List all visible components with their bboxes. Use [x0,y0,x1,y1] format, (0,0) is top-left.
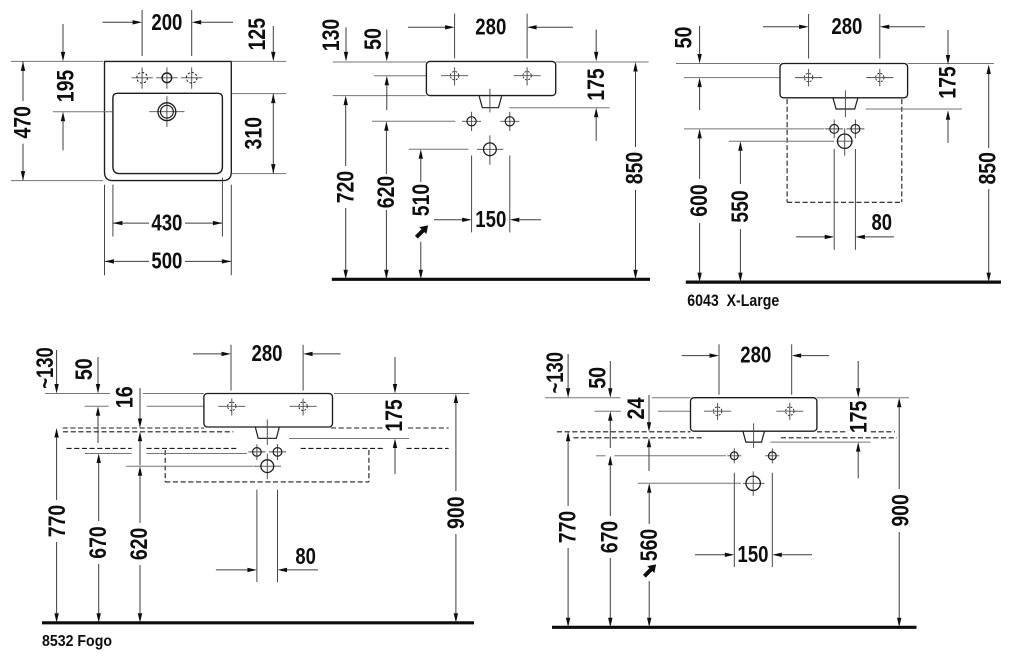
view 1 centre tap hole [156,67,178,88]
view 5 drain leader [638,482,741,484]
svg-text:175: 175 [845,401,872,434]
view 1 inner basin [113,93,222,173]
view 2 overflow outlet spout [479,96,501,107]
view 2 mounting holes leader [372,120,455,122]
view 5 console bottom dashed line [573,437,703,439]
svg-text:280: 280 [475,13,506,39]
svg-text:195: 195 [53,70,80,103]
svg-text:670: 670 [85,526,112,559]
view 3: rim leaders [676,63,780,65]
svg-text:150: 150 [738,541,769,567]
view 3 right mounting hole [847,120,865,139]
height adjust arrow view 5 [641,561,660,580]
view 5 right tap cross [776,403,803,420]
top rim leader lines [11,60,103,62]
svg-text:175: 175 [381,399,408,432]
view 3 right tap cross [866,69,893,87]
view 3 drain leader [729,140,834,142]
svg-text:670: 670 [597,521,624,554]
dimension 200 tap hole spacing [141,10,143,56]
view 5 left tap cross [704,403,731,420]
view 4 bracket dashed line [67,447,132,449]
svg-text:600: 600 [686,184,713,217]
view 5 overflow spout [743,431,765,442]
view 4 bracket frame dashed rect [164,450,166,482]
dimension 80 hole spacing view 4 [256,490,258,582]
view 1 left tap hole [132,67,153,88]
svg-text:~130: ~130 [542,352,569,394]
svg-text:280: 280 [252,340,283,366]
svg-text:50: 50 [585,367,612,389]
view 3 left mounting hole [825,120,843,139]
view 3 furniture outline dashed [786,99,788,202]
view 2 drain leader [409,148,469,150]
svg-text:150: 150 [475,206,506,232]
view 3 mounting holes leader [684,128,825,130]
svg-text:850: 850 [622,152,649,185]
view 4 overflow bottom leader [289,438,409,440]
svg-text:6043 X-Large: 6043 X-Large [687,291,779,310]
view 2 tap centreline leader [374,75,426,77]
height adjust arrow view 2 [413,222,432,241]
dimension 500 overall width [104,185,106,276]
svg-text:280: 280 [740,342,771,368]
svg-text:900: 900 [443,496,470,529]
view 5 overflow bottom leader [770,441,870,443]
svg-text:620: 620 [126,528,153,561]
svg-text:470: 470 [10,106,37,139]
dimension 280 view 5 [718,344,720,394]
svg-text:620: 620 [373,176,400,209]
view 4: rim leaders [45,393,110,395]
view 4 drain leader [126,465,253,467]
svg-text:310: 310 [240,117,267,150]
view 2 basin bottom leader [333,95,427,97]
view 3 washbasin body [780,64,908,98]
dimension 280 view 4 [230,345,232,391]
view 3 overflow spout [833,98,858,109]
view 3 floor line [686,281,1001,284]
svg-text:50: 50 [360,28,387,50]
view 5 tap line leader [595,410,621,412]
view 5 left mounting hole [727,448,741,463]
dimension 175 view 4 [384,397,406,434]
view 2 left tap cross [441,67,468,85]
svg-text:125: 125 [244,18,271,51]
view 4 washbasin body [204,394,333,428]
view 1 right tap hole [181,67,202,88]
view 2 left mounting hole [462,112,481,131]
view 3 drain outlet [836,128,853,156]
view 2 drain outlet [477,135,503,164]
svg-text:50: 50 [71,358,98,380]
view 5 washbasin body [691,398,817,432]
view 4 console top dashed line [63,427,204,429]
svg-text:510: 510 [408,184,435,217]
svg-text:16: 16 [112,386,139,408]
view 2 right tap cross [514,67,541,85]
view 3 overflow bottom leader [866,108,962,110]
dimension 280 tap spacing view 2 [454,14,456,59]
dimension 150 hole spacing view 2 [471,156,473,233]
svg-text:80: 80 [295,543,316,569]
view 2 washbasin body [426,61,555,95]
view 1 drain hole [149,96,184,127]
view 2 floor line [332,278,650,281]
view 5 console top dashed line [557,431,691,433]
svg-text:500: 500 [151,248,182,274]
svg-text:770: 770 [555,511,582,544]
view 4 floor line [42,621,474,624]
dimension 430 basin width [112,185,114,237]
view 2 right mounting hole [500,112,519,131]
svg-text:560: 560 [636,529,663,562]
view 5 right mounting hole [765,448,779,463]
dimension 80 hole spacing view 3 [833,149,835,250]
view 4 overflow spout [255,427,279,438]
bottom rim leader left [11,180,103,182]
svg-text:850: 850 [974,152,1001,185]
svg-text:80: 80 [872,209,893,235]
view 4 right mounting hole [269,444,286,460]
svg-text:8532 Fogo: 8532 Fogo [42,633,112,650]
svg-text:280: 280 [831,13,862,39]
svg-text:720: 720 [332,171,359,204]
view 2 overflow bottom leader [509,107,610,109]
view 4 left tap cross [218,399,245,416]
view 1: washbasin plan view outer rim [105,61,232,180]
svg-text:550: 550 [727,190,754,223]
view 4 drain outlet [254,454,281,480]
svg-text:175: 175 [583,68,610,101]
svg-text:~130: ~130 [32,347,59,389]
view 5: rim leaders [545,397,621,399]
view 3 tap line leader [684,77,780,79]
view 5 floor line [552,626,917,629]
view 3 left tap cross [795,69,822,87]
svg-text:24: 24 [623,397,650,419]
view 4 right tap cross [290,399,317,416]
svg-text:130: 130 [318,19,345,52]
svg-text:900: 900 [887,494,914,527]
view 5 mounting holes leader [596,455,606,457]
view 4 console bottom dashed line [63,431,233,433]
svg-text:175: 175 [935,66,962,99]
svg-text:200: 200 [151,9,182,35]
dimension 280 view 3 [808,14,810,59]
svg-text:50: 50 [671,27,698,49]
svg-text:430: 430 [151,209,182,235]
view 5 drain outlet [743,471,765,496]
view 2: wall line leaders at rim level [333,61,427,63]
dimension 175 view 5 [848,399,870,436]
view 4 tap line leader [85,405,109,407]
view 4 left mounting hole [248,444,265,460]
view 4 mounting holes leader [85,453,132,455]
svg-text:770: 770 [44,505,71,538]
dimension 150 hole spacing view 5 [733,473,735,567]
